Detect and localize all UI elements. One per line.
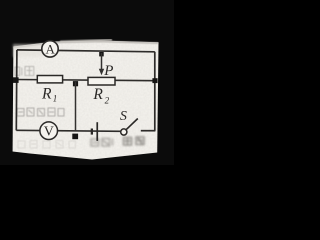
wiper arrowhead <box>99 69 104 75</box>
node N4 right junction <box>152 78 157 83</box>
wire: left rail <box>15 50 18 130</box>
voltmeter V1 <box>40 122 58 140</box>
ammeter A1 <box>42 41 58 57</box>
faint bleedthrough text row middle-left <box>17 108 64 116</box>
svg-text:R: R <box>92 86 103 103</box>
paper grain texture <box>13 41 159 160</box>
node N2 mid junction <box>73 81 78 86</box>
paper smudge top-right streak <box>60 40 112 42</box>
svg-text:V: V <box>44 125 54 140</box>
svg-text:R: R <box>41 85 52 102</box>
battery cell short plate <box>91 129 93 135</box>
scanned paper page background <box>13 41 159 160</box>
rheostat R2 box <box>88 77 115 85</box>
switch lever <box>126 119 138 130</box>
svg-text:P: P <box>103 63 113 79</box>
resistor R1 box <box>37 76 62 83</box>
svg-text:2: 2 <box>105 96 110 106</box>
faint bleedthrough text "图 10" <box>15 67 34 76</box>
switch S pivot <box>121 129 127 135</box>
node N5 bottom junction <box>72 134 78 140</box>
wire: bottom rail <box>16 130 121 131</box>
battery cell long plate <box>96 122 98 141</box>
svg-text:S: S <box>120 109 127 124</box>
svg-text:1: 1 <box>53 94 58 104</box>
node N1 left junction <box>13 77 19 83</box>
wire: middle rail <box>17 80 155 81</box>
wire: right rail <box>154 52 156 131</box>
paper edge gray feather top <box>13 42 158 48</box>
svg-text:A: A <box>46 41 56 56</box>
darker bleedthrough chars bottom right <box>91 139 113 147</box>
wire: wiper drop <box>101 53 103 71</box>
wire: bottom rail right of switch <box>141 130 156 132</box>
faint bleedthrough text row bottom <box>18 141 76 149</box>
node N3 wiper junction <box>99 52 104 56</box>
wire: top rail <box>17 50 155 52</box>
wire: voltmeter branch vertical <box>75 82 77 131</box>
paper smudge top-left <box>13 44 43 57</box>
